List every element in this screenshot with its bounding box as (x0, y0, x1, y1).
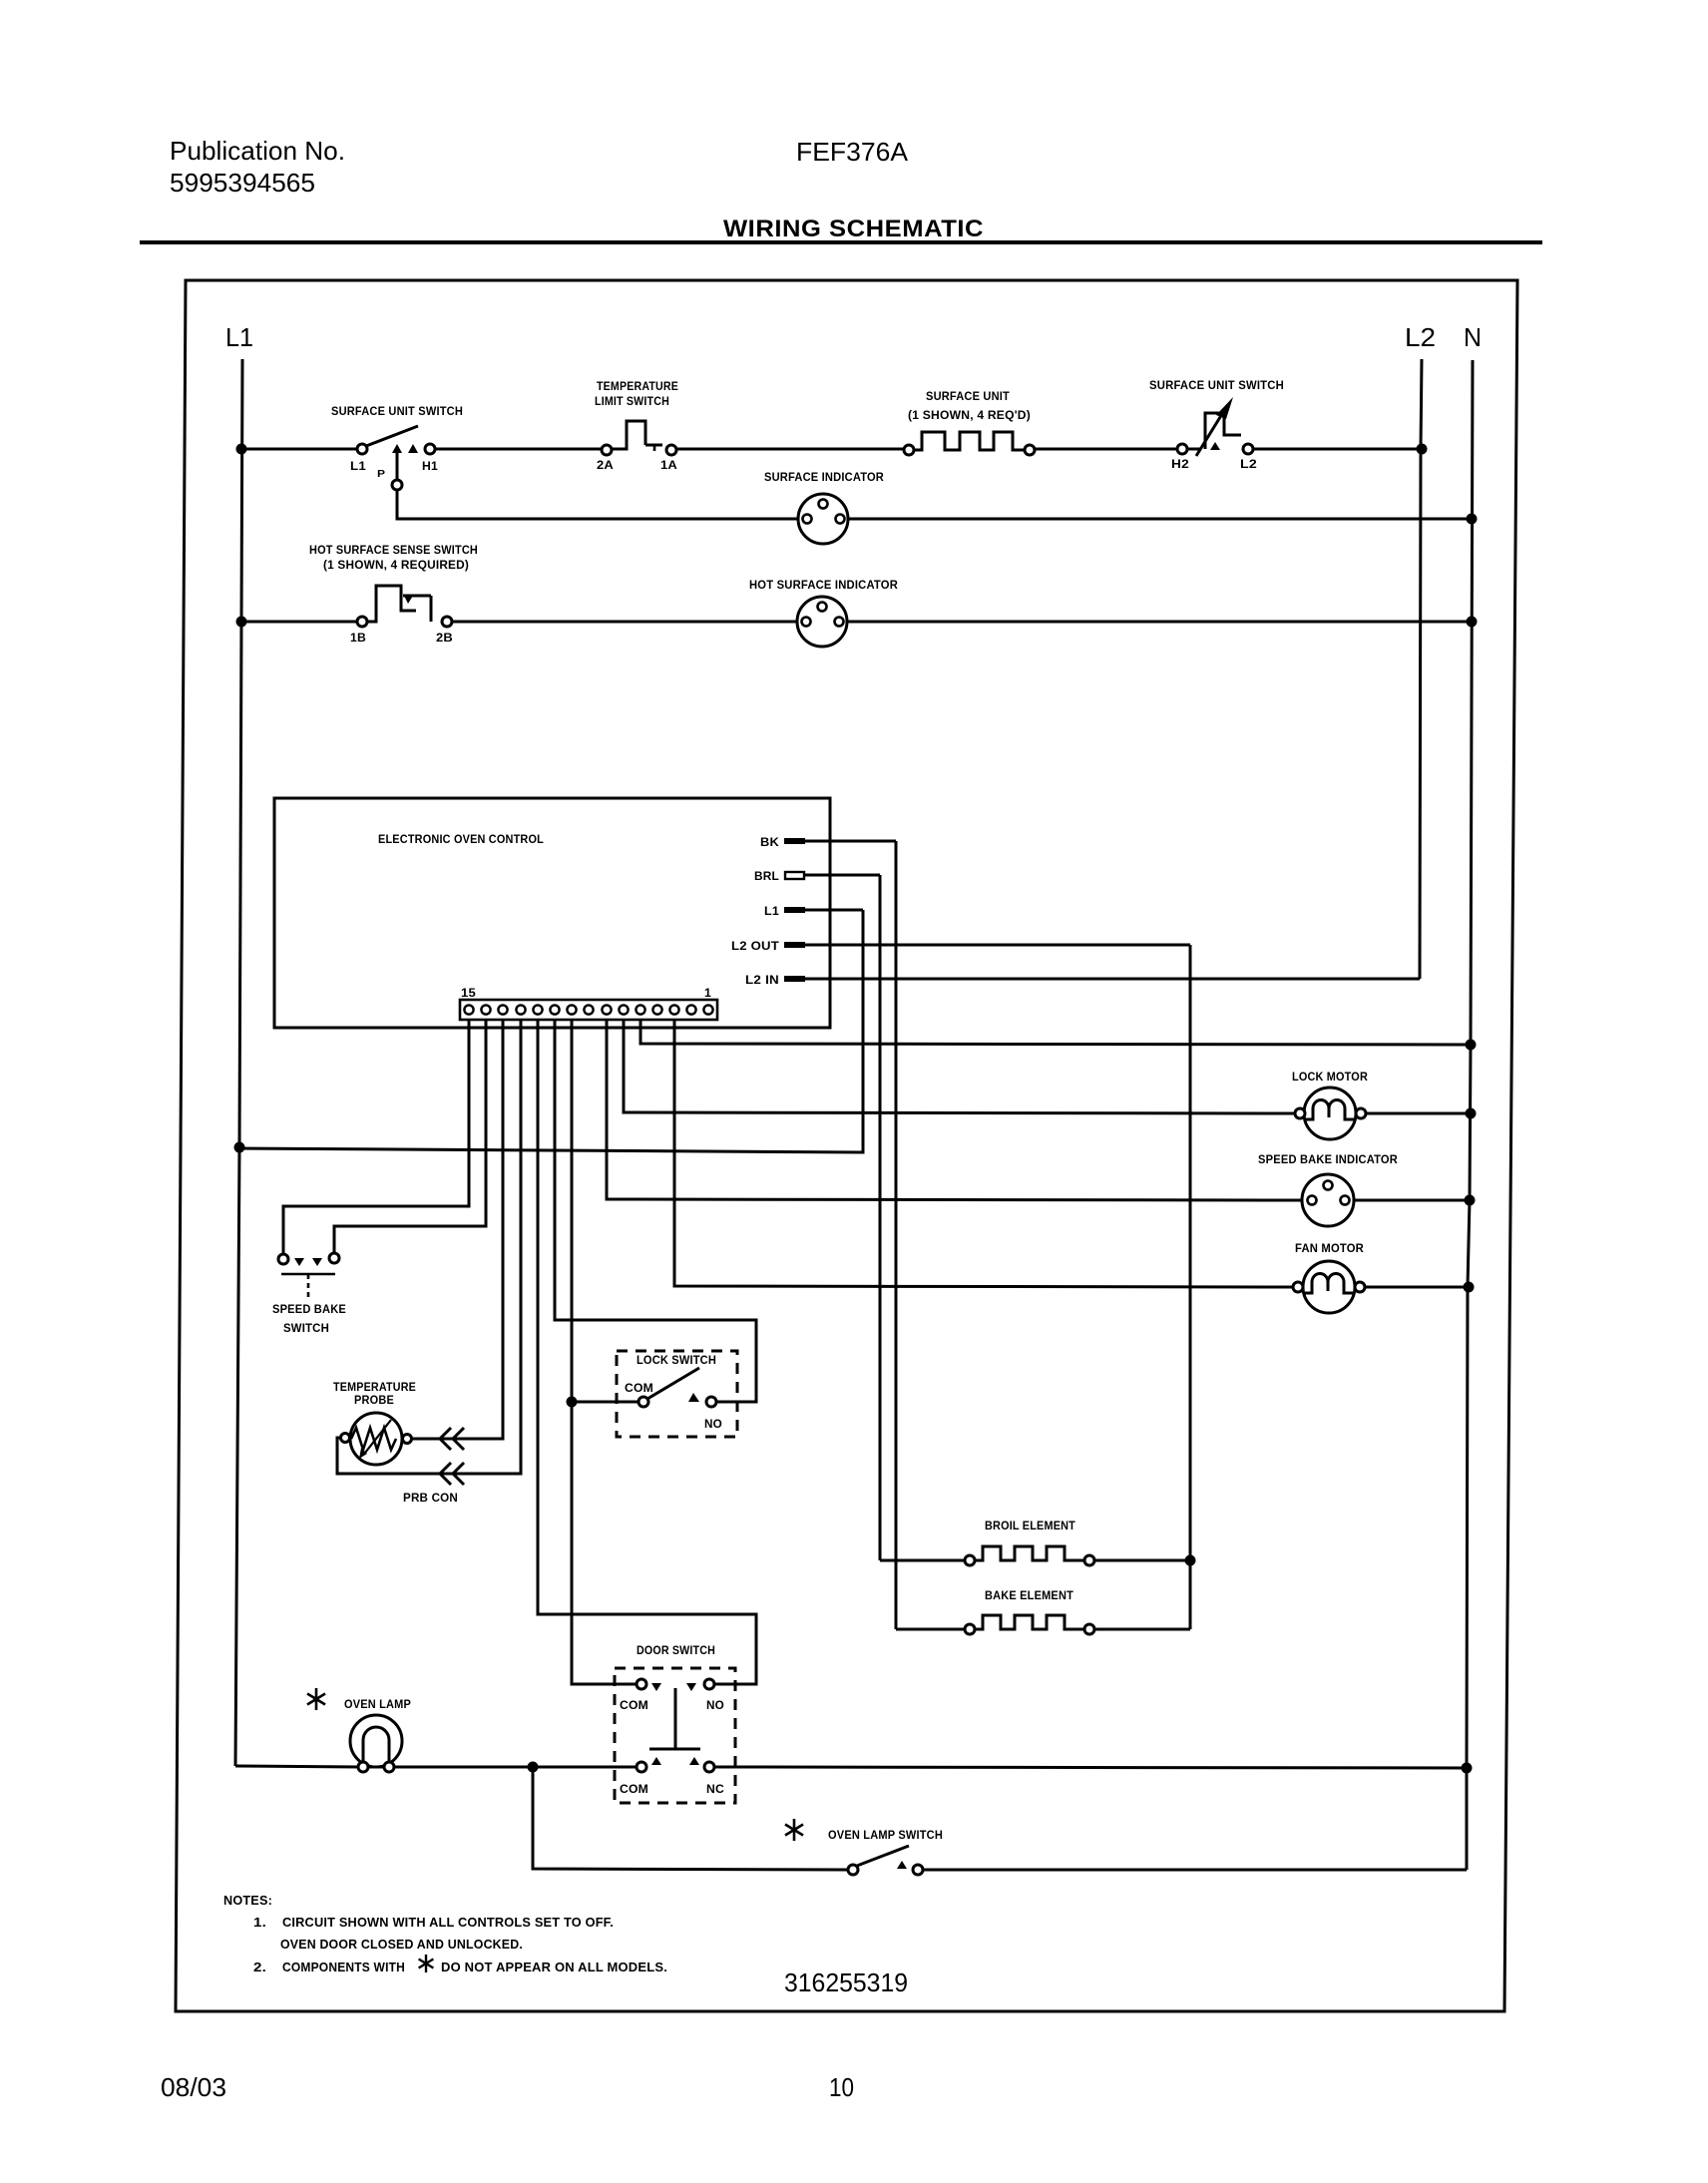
svg-text:08/03: 08/03 (161, 2072, 226, 2102)
speed bake indicator symbol (1302, 1174, 1354, 1226)
wire speed bake indicator to N (1354, 1199, 1470, 1202)
svg-text:H1: H1 (422, 461, 438, 473)
svg-text:L2 OUT: L2 OUT (731, 941, 779, 953)
temperature probe arrow (365, 1420, 391, 1453)
hot surface indicator lamp symbol (797, 597, 847, 647)
svg-text:BAKE ELEMENT: BAKE ELEMENT (985, 1590, 1073, 1602)
wire oven lamp to door switch COM (394, 1766, 637, 1769)
svg-text:LOCK SWITCH: LOCK SWITCH (637, 1355, 716, 1367)
svg-text:NC: NC (706, 1784, 724, 1796)
svg-text:HOT SURFACE INDICATOR: HOT SURFACE INDICATOR (749, 580, 898, 592)
door switch lower COM terminal (637, 1762, 646, 1772)
junction lock motor row at N (1466, 1108, 1477, 1119)
surface unit element right terminal (1025, 445, 1035, 455)
svg-text:1B: 1B (350, 633, 366, 645)
wire 1A to surface unit (676, 448, 904, 451)
door switch lower contact triangles (651, 1757, 661, 1765)
speed bake switch actuator bar (281, 1273, 335, 1276)
junction L1 / surface unit switch row (236, 444, 247, 455)
svg-text:SURFACE UNIT SWITCH: SURFACE UNIT SWITCH (331, 406, 463, 418)
junction broil element at L2 OUT wire (1185, 1555, 1196, 1566)
wire door switch NC to N (714, 1767, 1467, 1768)
surface indicator lamp symbol (798, 494, 848, 544)
wire BRL to broil element (880, 1559, 965, 1562)
oven lamp symbol (350, 1715, 402, 1767)
svg-text:COM: COM (620, 1700, 648, 1712)
svg-text:H2: H2 (1171, 459, 1189, 471)
svg-text:BROIL ELEMENT: BROIL ELEMENT (985, 1521, 1075, 1532)
wire EOC L1 vertical to L1 rail (239, 910, 863, 1152)
wire surface unit to surface unit switch 2 (1035, 448, 1177, 451)
fan motor symbol (1303, 1261, 1355, 1313)
EOC terminal strip connector (460, 1000, 717, 1020)
oven lamp asterisk (307, 1688, 325, 1710)
broil element right terminal (1084, 1555, 1094, 1565)
svg-text:N: N (1464, 322, 1482, 352)
svg-text:PROBE: PROBE (354, 1395, 394, 1407)
hot surface sense switch terminal 2B (442, 617, 452, 627)
svg-text:COMPONENTS WITH: COMPONENTS WITH (282, 1960, 405, 1974)
wire pin9 to lock switch COM and door switch COM (572, 1020, 636, 1684)
oven lamp switch contact triangle (897, 1861, 907, 1869)
wire pin3 to fan motor (674, 1020, 1292, 1287)
svg-text:NO: NO (706, 1700, 724, 1712)
svg-text:1.: 1. (253, 1915, 266, 1930)
wire L2 OUT vertical (1189, 945, 1192, 1629)
svg-text:LIMIT SWITCH: LIMIT SWITCH (595, 396, 669, 408)
svg-text:SWITCH: SWITCH (283, 1323, 329, 1335)
svg-text:1A: 1A (660, 460, 677, 472)
EOC terminal strip pins 15..1 (464, 1005, 712, 1014)
wire L1 stub (804, 909, 863, 912)
svg-text:10: 10 (829, 2072, 854, 2102)
speed bake switch terminals (278, 1254, 288, 1264)
junction oven lamp switch tap (528, 1762, 539, 1773)
wire bake element to L2 OUT vertical (1094, 1628, 1190, 1631)
svg-text:1: 1 (704, 988, 711, 1000)
hot surface sense switch terminal 1B (357, 617, 367, 627)
svg-text:SPEED BAKE INDICATOR: SPEED BAKE INDICATOR (1258, 1154, 1398, 1166)
svg-text:COM: COM (625, 1383, 653, 1395)
svg-text:TEMPERATURE: TEMPERATURE (597, 381, 678, 393)
oven lamp switch arm (857, 1846, 909, 1866)
temperature limit switch terminal 2A (602, 445, 612, 455)
surface unit element winding (914, 432, 1025, 450)
notes asterisk (419, 1955, 434, 1972)
wire oven lamp switch feed (533, 1767, 848, 1870)
wire between oven lamp terminals (368, 1766, 384, 1769)
broil element left terminal (965, 1555, 975, 1565)
svg-text:(1 SHOWN, 4 REQUIRED): (1 SHOWN, 4 REQUIRED) (323, 560, 469, 572)
svg-text:WIRING SCHEMATIC: WIRING SCHEMATIC (723, 216, 984, 242)
junction door switch row at N (1462, 1763, 1473, 1774)
svg-text:OVEN DOOR CLOSED AND UNLOCKED.: OVEN DOOR CLOSED AND UNLOCKED. (280, 1937, 523, 1952)
wire surface indicator to N (848, 518, 1472, 521)
junction pin9 wire at lock switch feed (567, 1397, 578, 1408)
temperature probe resistor zigzag (351, 1428, 396, 1450)
svg-text:316255319: 316255319 (784, 1967, 908, 1997)
temperature probe terminals (341, 1434, 350, 1443)
wire L2 terminal to L2 rail (1253, 448, 1421, 451)
surface unit switch terminal L1 (357, 444, 367, 454)
surface unit switch 2 contact triangle (1210, 442, 1220, 450)
wire BRL vertical to broil element (879, 875, 882, 1560)
svg-text:CIRCUIT SHOWN WITH ALL CONTROL: CIRCUIT SHOWN WITH ALL CONTROLS SET TO O… (282, 1915, 614, 1930)
svg-text:DOOR SWITCH: DOOR SWITCH (637, 1645, 715, 1657)
surface unit switch 2 arm with arrow (1196, 409, 1225, 456)
junction pin5 wire at N (1466, 1040, 1477, 1051)
bake element winding (975, 1615, 1084, 1629)
wire BRL stub (804, 874, 880, 877)
wire pin12 to probe connector (342, 1020, 521, 1474)
electronic oven control box U1 (274, 798, 830, 1028)
broil element winding (975, 1546, 1084, 1560)
title rule (140, 240, 1542, 244)
oven lamp switch asterisk (785, 1819, 803, 1841)
svg-text:LOCK MOTOR: LOCK MOTOR (1292, 1072, 1368, 1084)
temperature limit switch body (612, 421, 645, 449)
lock switch terminal NO (706, 1397, 716, 1407)
door switch upper NO terminal (704, 1679, 714, 1689)
door switch upper contact triangles (651, 1683, 661, 1691)
svg-text:15: 15 (461, 988, 476, 1000)
svg-text:L1: L1 (350, 461, 366, 473)
wire pilot tap down from switch (396, 452, 399, 480)
svg-text:BK: BK (760, 837, 780, 849)
svg-text:2A: 2A (597, 460, 614, 472)
door switch actuator (674, 1688, 677, 1748)
wire hot surface indicator to N (847, 621, 1472, 624)
wire H1 to temperature limit switch (435, 448, 602, 451)
svg-text:PRB CON: PRB CON (403, 1493, 458, 1505)
lock motor symbol (1304, 1088, 1356, 1139)
svg-text:2.: 2. (253, 1960, 266, 1974)
surface unit switch terminal H1 (425, 444, 435, 454)
wire pin6 to lock motor (624, 1020, 1294, 1113)
svg-text:5995394565: 5995394565 (170, 168, 315, 198)
wire broil element to L2 OUT vertical (1094, 1559, 1190, 1562)
wire fan motor to N (1365, 1286, 1469, 1289)
junction EOC L1 wire at L1 rail (234, 1142, 245, 1153)
door switch lower NC terminal (704, 1762, 714, 1772)
svg-text:L2 IN: L2 IN (745, 975, 779, 987)
wire 2B to hot surface indicator (452, 621, 797, 624)
svg-text:BRL: BRL (754, 871, 779, 883)
junction fan motor row at N (1464, 1282, 1475, 1293)
wire L2 OUT stub to vertical (804, 944, 1190, 947)
junction speed bake indicator row at N (1465, 1195, 1476, 1206)
wire probe left terminal loop (337, 1438, 342, 1474)
lock switch arm (647, 1368, 699, 1399)
wire L2 rail vertical (1420, 359, 1422, 979)
svg-text:SPEED BAKE: SPEED BAKE (272, 1304, 346, 1316)
document header: publication number (170, 136, 345, 198)
lock switch S3 dashed enclosure (617, 1351, 737, 1437)
junction surface row at L2 rail (1417, 444, 1428, 455)
wire BK vertical to bake element (895, 841, 898, 1629)
wire L1 to hot surface sense switch (241, 621, 357, 624)
svg-text:ELECTRONIC OVEN CONTROL: ELECTRONIC OVEN CONTROL (378, 834, 544, 846)
wire pin15 to speed bake switch (283, 1020, 469, 1253)
junction hot surface row at N (1467, 617, 1478, 628)
wire pin13 to probe connector (412, 1020, 503, 1439)
surface unit switch 2 body (1187, 413, 1241, 449)
svg-text:L2: L2 (1240, 459, 1257, 471)
svg-text:2B: 2B (436, 633, 453, 645)
wire L1 to oven lamp (235, 1766, 358, 1767)
oven lamp switch left terminal (848, 1865, 858, 1875)
bake element right terminal (1084, 1624, 1094, 1634)
wire L1 to surface unit switch (241, 448, 357, 451)
svg-text:L1: L1 (225, 322, 253, 352)
svg-text:(1 SHOWN, 4 REQ'D): (1 SHOWN, 4 REQ'D) (908, 410, 1031, 422)
svg-text:DO NOT APPEAR ON ALL MODELS.: DO NOT APPEAR ON ALL MODELS. (441, 1960, 667, 1974)
svg-text:OVEN LAMP SWITCH: OVEN LAMP SWITCH (828, 1830, 943, 1842)
wire pin14 to speed bake switch (334, 1020, 486, 1252)
lock switch contact triangle (688, 1393, 699, 1402)
wire pilot tap to surface indicator row (397, 490, 798, 519)
door switch upper COM terminal (637, 1679, 646, 1689)
wire oven lamp switch to N (923, 1869, 1467, 1872)
hot surface sense switch body (367, 586, 416, 622)
lock motor terminals (1295, 1108, 1305, 1118)
wire pin11 to door switch NO (538, 1020, 756, 1684)
svg-text:Publication No.: Publication No. (170, 136, 345, 166)
probe connector chevrons PRB CON (440, 1428, 464, 1450)
wire BK stub (804, 840, 896, 843)
svg-text:COM: COM (620, 1784, 648, 1796)
wire L1 rail vertical (235, 359, 242, 1766)
surface unit switch 2 terminal L2 (1243, 444, 1253, 454)
surface unit switch arm (366, 426, 418, 446)
svg-text:OVEN LAMP: OVEN LAMP (344, 1699, 411, 1711)
notes text block (223, 1893, 667, 1974)
svg-text:HOT SURFACE SENSE SWITCH: HOT SURFACE SENSE SWITCH (309, 545, 478, 557)
svg-text:L1: L1 (764, 906, 779, 918)
wire pin10 to lock switch NO (555, 1020, 756, 1402)
wire pin7 to speed bake indicator (607, 1020, 1303, 1200)
svg-text:NOTES:: NOTES: (223, 1893, 272, 1908)
svg-text:NO: NO (704, 1419, 722, 1431)
wire N rail vertical (1467, 360, 1473, 1870)
door switch dashed enclosure (615, 1668, 735, 1803)
junction L1 / hot surface sense row (236, 617, 247, 628)
wire L2 IN to L2 rail (804, 978, 1420, 981)
wire pin5 to N (640, 1020, 1471, 1045)
svg-text:FAN MOTOR: FAN MOTOR (1295, 1243, 1364, 1255)
svg-text:TEMPERATURE: TEMPERATURE (333, 1382, 416, 1394)
oven lamp switch right terminal (913, 1865, 923, 1875)
svg-text:L2: L2 (1405, 322, 1436, 352)
svg-text:FEF376A: FEF376A (796, 137, 909, 167)
surface unit switch 2 terminal H2 (1177, 444, 1187, 454)
temperature limit switch terminal 1A (666, 445, 676, 455)
svg-text:SURFACE UNIT: SURFACE UNIT (926, 391, 1010, 403)
drawing border frame (176, 280, 1517, 2011)
svg-text:SURFACE INDICATOR: SURFACE INDICATOR (764, 472, 884, 484)
junction surface indicator row at N (1467, 514, 1478, 525)
wire BK to bake element (896, 1628, 965, 1631)
fan motor terminals (1293, 1282, 1303, 1292)
bake element left terminal (965, 1624, 975, 1634)
pilot tap terminal circle (392, 480, 402, 490)
svg-text:SURFACE UNIT SWITCH: SURFACE UNIT SWITCH (1149, 380, 1284, 392)
surface unit switch contact triangles (392, 444, 402, 453)
surface unit element left terminal (904, 445, 914, 455)
speed bake switch contact triangles (294, 1258, 304, 1266)
svg-text:P: P (377, 469, 385, 480)
wire lock motor to N (1366, 1112, 1471, 1115)
temperature probe body (350, 1413, 402, 1465)
